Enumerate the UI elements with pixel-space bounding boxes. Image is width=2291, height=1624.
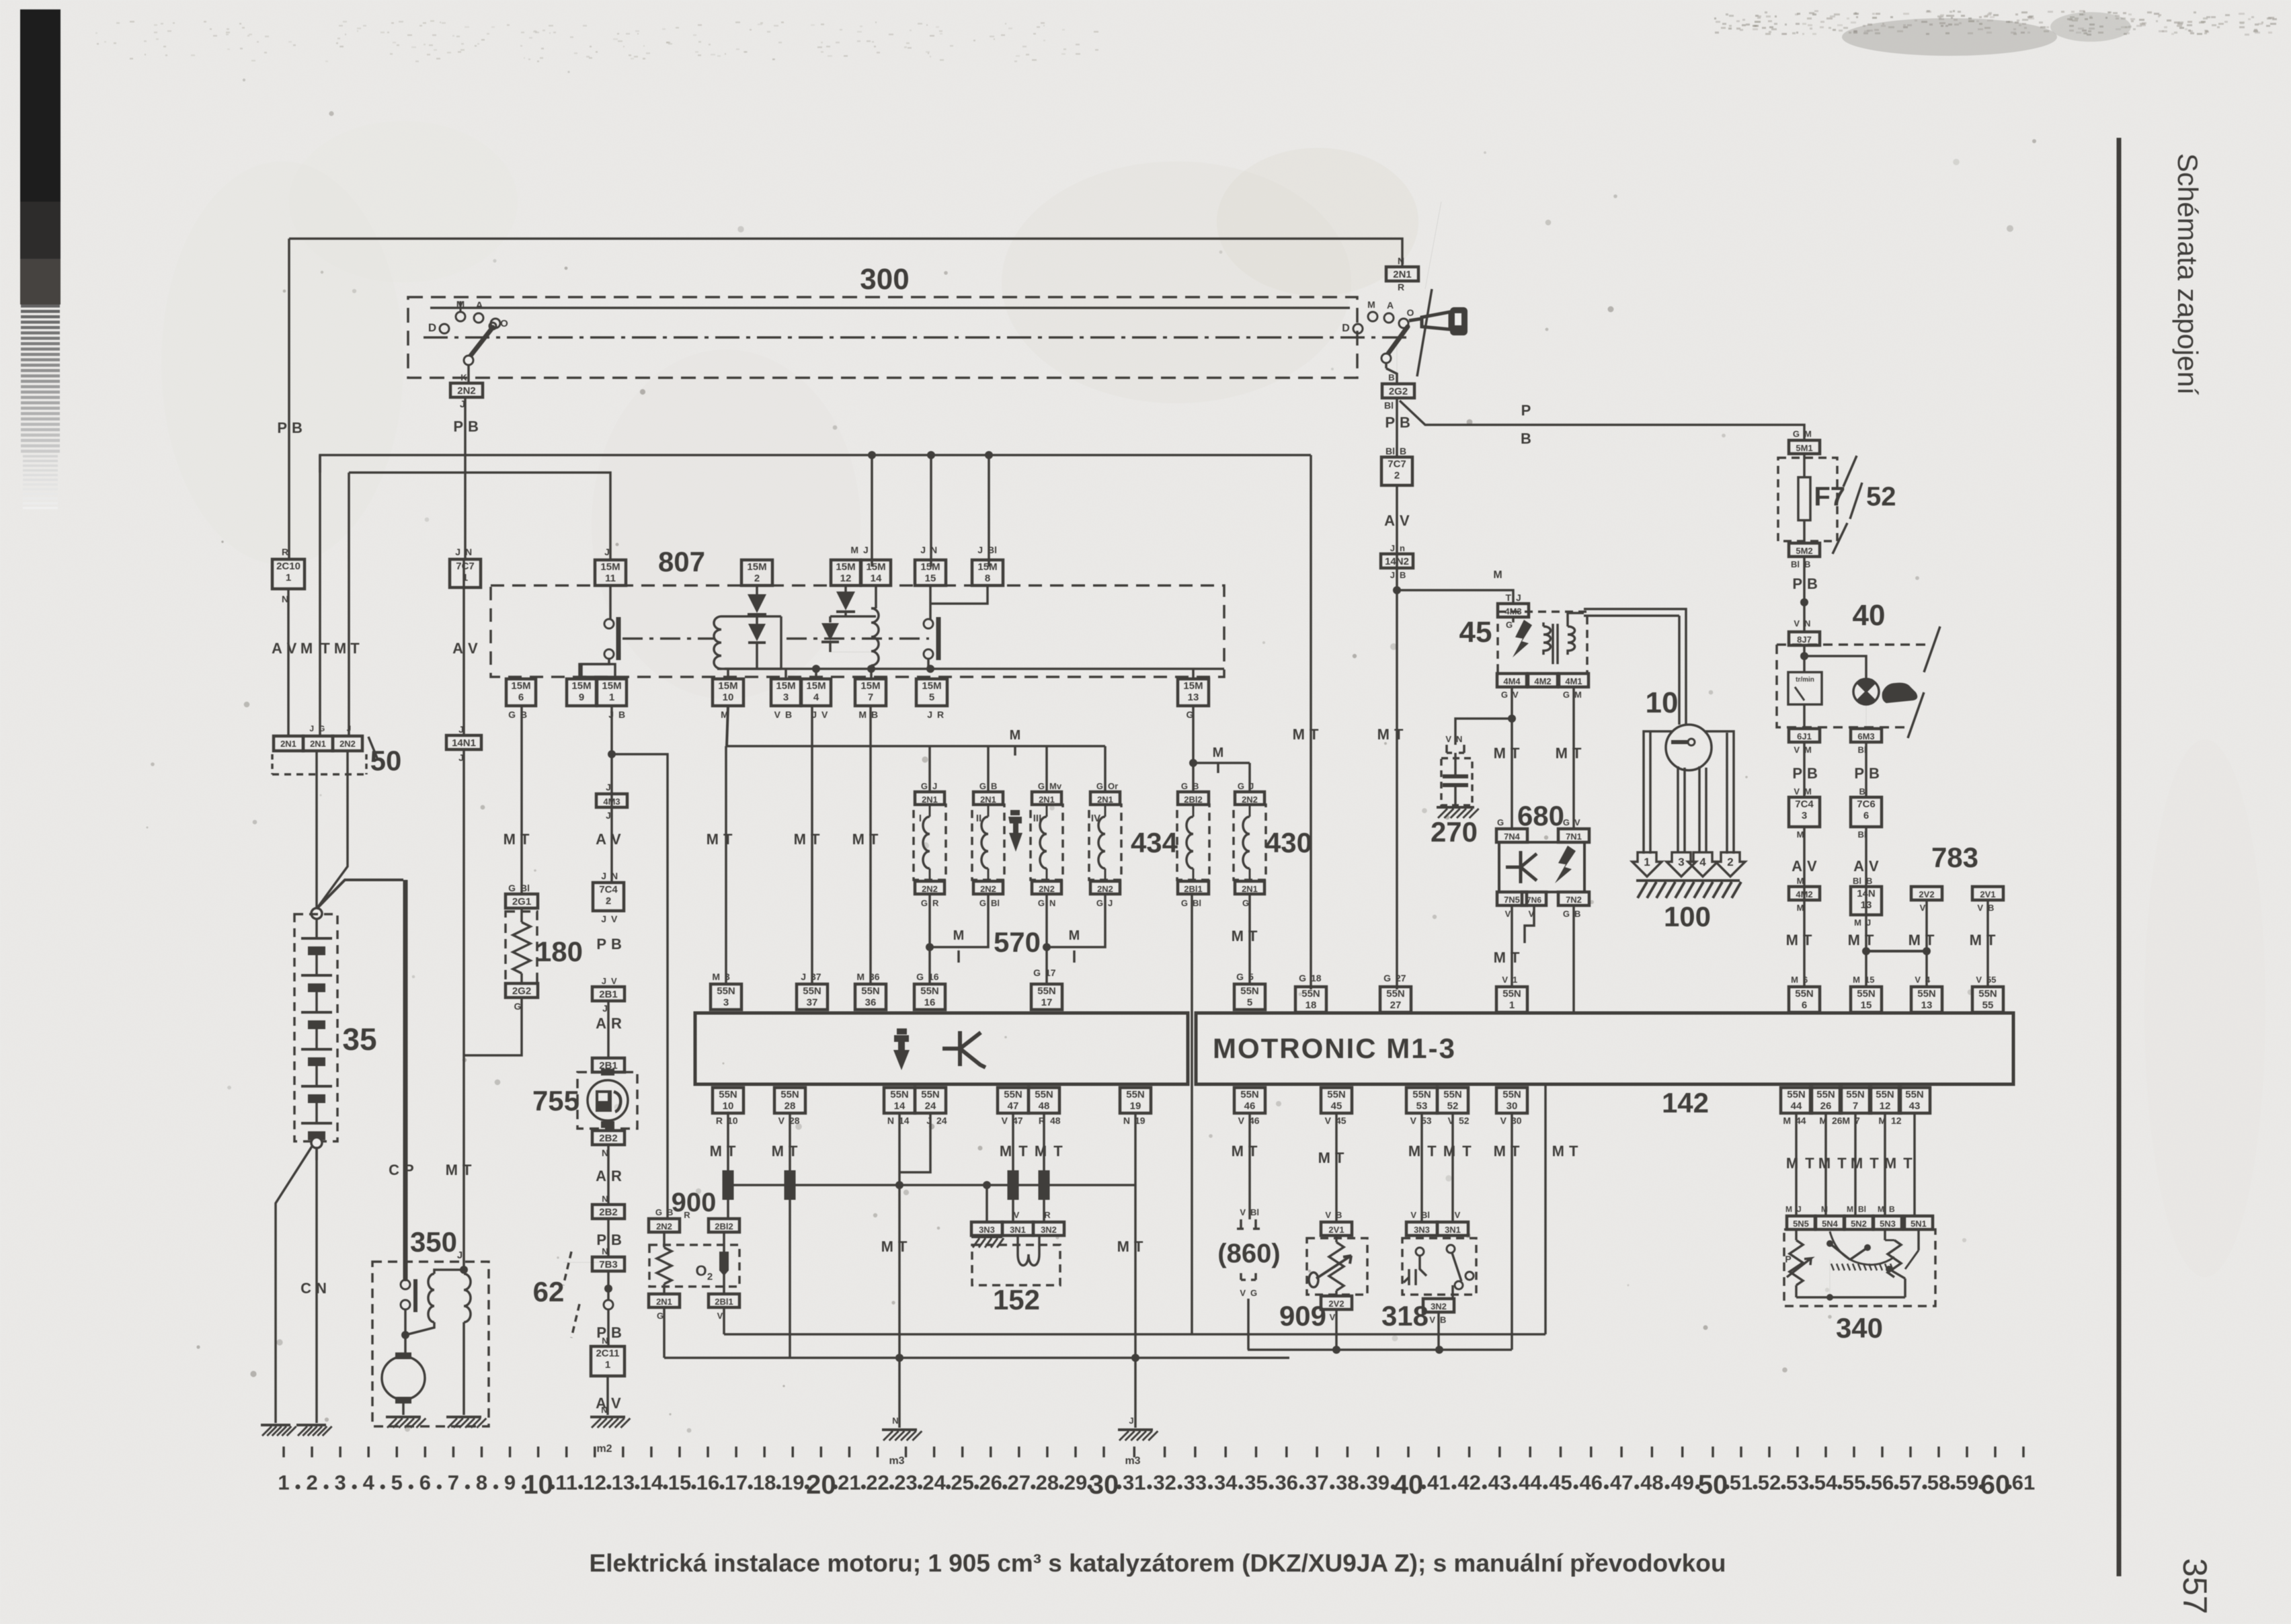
- svg-text:T: T: [350, 640, 360, 657]
- wire battery feed top H1: [289, 239, 1402, 267]
- svg-text:G: G: [1501, 690, 1508, 700]
- module 152 coil: [1018, 1235, 1039, 1266]
- sensor 430 dashed body: [1234, 805, 1266, 880]
- svg-text:G: G: [657, 1311, 664, 1321]
- svg-text:2N1: 2N1: [1393, 269, 1412, 280]
- injector II coil: [988, 805, 990, 817]
- svg-text:G: G: [1506, 620, 1513, 630]
- svg-text:V: V: [611, 976, 617, 986]
- svg-text:J: J: [601, 913, 606, 924]
- svg-text:5: 5: [1247, 997, 1252, 1008]
- svg-text:B: B: [1574, 909, 1580, 919]
- injector I riser: [928, 746, 931, 793]
- splice link line: [728, 1184, 1135, 1186]
- svg-text:M: M: [1318, 1149, 1330, 1166]
- starter cable CP thick: [403, 880, 408, 1281]
- svg-text:M: M: [1804, 429, 1812, 439]
- svg-text:N: N: [611, 870, 618, 881]
- svg-text:7C7: 7C7: [456, 561, 475, 572]
- svg-text:5: 5: [929, 692, 934, 703]
- ignition switch right lever: [1386, 327, 1408, 356]
- svg-text:2Bl2: 2Bl2: [1184, 795, 1202, 805]
- svg-text:6: 6: [419, 1471, 431, 1494]
- svg-text:36: 36: [865, 997, 877, 1008]
- connector 55N55: [1972, 987, 2003, 1012]
- right separator rule: [2117, 138, 2122, 1576]
- O2 connector 2Bl2: [709, 1219, 739, 1232]
- svg-text:55N: 55N: [1004, 1089, 1022, 1100]
- svg-text:B: B: [618, 709, 625, 720]
- svg-text:G: G: [1563, 817, 1570, 827]
- svg-text:M: M: [1377, 726, 1390, 743]
- svg-text:13: 13: [612, 1471, 635, 1494]
- wire col1338 down to ground m3: [898, 1113, 901, 1428]
- svg-text:G: G: [921, 781, 928, 791]
- ground capacitor 270: [1437, 806, 1474, 809]
- svg-text:34: 34: [1214, 1471, 1238, 1494]
- svg-text:7C6: 7C6: [1857, 799, 1876, 810]
- svg-text:1: 1: [286, 572, 291, 583]
- connector 55N14: [884, 1088, 915, 1113]
- svg-text:G: G: [1236, 971, 1244, 982]
- svg-text:Bl: Bl: [1385, 446, 1395, 456]
- connector 55N19: [1120, 1088, 1151, 1113]
- svg-text:N: N: [887, 1115, 894, 1126]
- O2 sensor element: [723, 1233, 725, 1252]
- wire 62 to 2C11: [607, 1309, 610, 1346]
- svg-text:M: M: [1232, 928, 1244, 944]
- svg-text:15M: 15M: [920, 561, 940, 573]
- fuse F7 element: [1803, 454, 1806, 477]
- connector 55N24: [915, 1088, 946, 1113]
- connector 55N48: [1029, 1088, 1059, 1113]
- svg-text:m3: m3: [1125, 1455, 1140, 1467]
- wire 4M1 down to 680: [1572, 687, 1575, 829]
- svg-text:434: 434: [1131, 827, 1178, 858]
- svg-text:T: T: [463, 1162, 472, 1178]
- svg-text:900: 900: [672, 1188, 717, 1217]
- wire 2G2 down to 7C7-2: [1396, 398, 1398, 457]
- svg-text:Bl: Bl: [1859, 786, 1868, 797]
- svg-text:15M: 15M: [922, 680, 941, 692]
- svg-text:15M: 15M: [511, 680, 530, 692]
- svg-text:46: 46: [1244, 1100, 1256, 1112]
- distributor leads: [1644, 731, 1672, 854]
- svg-text:37: 37: [807, 997, 818, 1008]
- svg-text:Bl: Bl: [1853, 876, 1861, 886]
- strip 50 lower dashed row: [272, 773, 366, 776]
- svg-text:55N: 55N: [1795, 988, 1814, 1000]
- svg-text:N: N: [1049, 898, 1055, 908]
- svg-text:55N: 55N: [1905, 1089, 1924, 1100]
- wire inj I to 55N16: [928, 947, 931, 984]
- svg-text:B: B: [611, 936, 622, 952]
- connector 55N27: [1380, 987, 1411, 1012]
- warning lamp symbol: [1853, 679, 1879, 704]
- wire 7N2 down to bus: [1572, 905, 1575, 1013]
- svg-text:4: 4: [1925, 975, 1931, 985]
- svg-text:100: 100: [1664, 901, 1711, 932]
- injector III coil: [1046, 805, 1048, 817]
- svg-text:52: 52: [1758, 1471, 1781, 1494]
- svg-text:5N2: 5N2: [1851, 1219, 1867, 1229]
- svg-text:4M4: 4M4: [1503, 676, 1521, 686]
- svg-text:T: T: [1572, 745, 1582, 762]
- svg-text:R: R: [282, 546, 288, 557]
- svg-text:(860): (860): [1217, 1239, 1280, 1268]
- svg-text:M: M: [1574, 690, 1582, 700]
- svg-text:T: T: [1925, 932, 1935, 948]
- svg-text:G: G: [921, 898, 928, 908]
- svg-text:909: 909: [1279, 1300, 1326, 1332]
- svg-text:18: 18: [1311, 973, 1322, 983]
- svg-text:26: 26: [979, 1471, 1002, 1494]
- svg-text:27: 27: [1390, 1000, 1402, 1011]
- svg-text:G: G: [979, 898, 986, 908]
- svg-text:15M: 15M: [602, 680, 621, 692]
- svg-text:V: V: [1240, 1288, 1246, 1298]
- svg-text:5N1: 5N1: [1911, 1219, 1927, 1229]
- svg-text:B: B: [1400, 570, 1406, 580]
- svg-text:43: 43: [1909, 1100, 1921, 1112]
- svg-text:B: B: [1400, 414, 1410, 431]
- svg-text:G: G: [319, 724, 325, 733]
- svg-text:6: 6: [1863, 810, 1869, 821]
- connector 2V2b: [1911, 887, 1942, 900]
- svg-text:A: A: [596, 831, 606, 848]
- svg-text:4: 4: [813, 692, 819, 703]
- switch 318 contacts: [1416, 1248, 1424, 1256]
- svg-text:59: 59: [1956, 1471, 1978, 1494]
- svg-text:55N: 55N: [1816, 1089, 1835, 1100]
- wire 55N18 drop: [1310, 455, 1312, 989]
- svg-text:N: N: [1804, 618, 1810, 628]
- svg-text:55N: 55N: [803, 985, 821, 997]
- svg-text:R: R: [937, 709, 944, 720]
- sensor 434 coil: [1193, 805, 1195, 817]
- svg-text:54: 54: [1814, 1471, 1838, 1494]
- relay coil R2 top link: [830, 615, 876, 618]
- svg-text:2N1: 2N1: [922, 795, 938, 805]
- connector 15M5: [916, 679, 947, 706]
- meter 340 wiper arc: [1830, 1231, 1894, 1265]
- pot 909 element: [1335, 1235, 1338, 1242]
- svg-text:8: 8: [985, 573, 990, 584]
- HT lead coil to distributor: [1584, 609, 1686, 725]
- svg-text:53: 53: [1786, 1471, 1809, 1494]
- svg-text:M: M: [1117, 1238, 1129, 1255]
- svg-text:35: 35: [342, 1022, 376, 1057]
- resistor 180 element: [520, 908, 523, 922]
- svg-text:Bl: Bl: [1858, 1205, 1866, 1214]
- svg-text:55N: 55N: [1037, 985, 1056, 997]
- svg-text:B: B: [1440, 1315, 1446, 1325]
- svg-text:T: T: [1462, 1143, 1472, 1160]
- svg-text:55N: 55N: [1301, 988, 1320, 1000]
- junction 270 branch: [1508, 715, 1516, 723]
- svg-text:MOTRONIC M1-3: MOTRONIC M1-3: [1213, 1032, 1456, 1064]
- wire to 7B3: [607, 1219, 610, 1257]
- battery bottom node: [311, 1137, 322, 1148]
- ground starter solenoid: [446, 1416, 481, 1418]
- ECU spark plug glyph: [893, 1035, 910, 1070]
- wire x476 drop from H2: [319, 455, 321, 736]
- svg-text:47: 47: [1008, 1100, 1019, 1112]
- connector 5N4: [1816, 1216, 1844, 1229]
- svg-text:430: 430: [1265, 827, 1312, 858]
- svg-text:J: J: [455, 546, 460, 557]
- svg-text:45: 45: [1549, 1471, 1572, 1494]
- svg-text:B: B: [1869, 765, 1880, 782]
- wire 7N6 jog: [1525, 905, 1534, 943]
- svg-text:15M: 15M: [718, 680, 737, 692]
- svg-text:570: 570: [994, 926, 1041, 958]
- svg-text:7N5: 7N5: [1504, 895, 1520, 905]
- svg-text:58: 58: [1927, 1471, 1950, 1494]
- wire 434 down through bus gap: [1191, 894, 1193, 1334]
- svg-text:17: 17: [725, 1471, 748, 1494]
- connector 15M8: [972, 560, 1003, 585]
- connector 7N2: [1558, 892, 1589, 905]
- svg-text:N: N: [316, 1280, 327, 1297]
- svg-text:V: V: [1429, 1315, 1435, 1325]
- svg-text:8: 8: [476, 1471, 487, 1494]
- connector 15M15: [915, 560, 946, 585]
- svg-text:3N1: 3N1: [1010, 1225, 1026, 1235]
- meter 340 left pot: [1795, 1229, 1798, 1240]
- wire 5M2 to 8J7: [1803, 557, 1806, 632]
- svg-text:B: B: [871, 709, 878, 720]
- svg-text:55N: 55N: [1787, 1089, 1806, 1100]
- connector 7N5: [1497, 892, 1527, 905]
- connector 55N47: [998, 1088, 1029, 1113]
- svg-text:Bl: Bl: [520, 883, 530, 893]
- svg-text:55N: 55N: [1443, 1089, 1462, 1100]
- svg-text:15M: 15M: [600, 561, 620, 573]
- connector 2V1: [1321, 1222, 1352, 1235]
- svg-text:47: 47: [1610, 1471, 1633, 1494]
- svg-text:18: 18: [1305, 1000, 1317, 1011]
- svg-text:J: J: [1390, 543, 1395, 553]
- svg-text:10: 10: [1646, 686, 1679, 719]
- svg-text:15M: 15M: [1183, 680, 1203, 692]
- svg-text:6M3: 6M3: [1857, 731, 1874, 741]
- relay coil R1 top node: [721, 615, 781, 618]
- wire node to battery diagonal to CP: [317, 880, 403, 909]
- svg-text:T: T: [789, 1143, 798, 1160]
- pot 909 dashed box: [1307, 1238, 1367, 1295]
- connector 55N5: [1234, 984, 1265, 1010]
- svg-text:4: 4: [363, 1471, 375, 1494]
- svg-text:G: G: [1038, 898, 1045, 908]
- module 680 box: [1499, 842, 1584, 892]
- svg-text:F7: F7: [1814, 482, 1845, 512]
- svg-text:11: 11: [555, 1471, 577, 1494]
- wire strip to battery: [315, 751, 318, 909]
- svg-text:14: 14: [640, 1471, 664, 1494]
- svg-text:G: G: [1033, 967, 1041, 978]
- svg-text:48: 48: [1050, 1115, 1061, 1126]
- svg-text:2: 2: [306, 1471, 317, 1494]
- svg-text:M: M: [1783, 1115, 1791, 1126]
- svg-text:15M: 15M: [747, 561, 766, 573]
- svg-text:B: B: [1866, 876, 1872, 886]
- svg-text:5N3: 5N3: [1880, 1219, 1896, 1229]
- wire strip second to battery diagonal: [317, 751, 348, 909]
- svg-text:30: 30: [1089, 1470, 1119, 1500]
- spark plug icon inside 807 region: [1008, 817, 1022, 852]
- svg-text:4M1: 4M1: [1565, 676, 1582, 686]
- connector 2V2: [1321, 1296, 1352, 1309]
- svg-text:2N2: 2N2: [1039, 884, 1055, 894]
- svg-text:1: 1: [1513, 975, 1517, 985]
- connector 5N2: [1845, 1216, 1873, 1229]
- svg-text:7B3: 7B3: [599, 1259, 618, 1270]
- svg-text:V: V: [1240, 1207, 1246, 1217]
- svg-text:V: V: [1455, 1210, 1461, 1220]
- module 152 connector 3N2: [1033, 1222, 1064, 1235]
- relay coil R2: [871, 608, 879, 665]
- svg-text:N: N: [1398, 255, 1404, 266]
- O2 heater resistor: [663, 1233, 666, 1248]
- svg-text:N: N: [892, 1416, 898, 1426]
- ignition switch dash-dot line: [424, 336, 1412, 339]
- junction dot 910: [608, 750, 616, 758]
- svg-text:5N5: 5N5: [1793, 1219, 1809, 1229]
- svg-text:300: 300: [860, 263, 909, 296]
- svg-text:N: N: [602, 1194, 608, 1204]
- module 152 ground hatch: [971, 1235, 1002, 1238]
- svg-text:13: 13: [1861, 899, 1872, 911]
- svg-text:55: 55: [1843, 1471, 1865, 1494]
- svg-text:2N2: 2N2: [457, 385, 476, 397]
- svg-text:14: 14: [894, 1100, 906, 1112]
- svg-text:V: V: [1410, 1115, 1417, 1126]
- svg-text:C: C: [389, 1162, 399, 1178]
- svg-text:5N4: 5N4: [1822, 1219, 1839, 1229]
- svg-text:2G2: 2G2: [512, 985, 531, 997]
- svg-text:m2: m2: [596, 1443, 612, 1455]
- wire 15M1 col down to fuel chain: [610, 706, 613, 883]
- svg-text:J: J: [457, 1250, 463, 1261]
- svg-text:13: 13: [1188, 692, 1199, 703]
- svg-text:N: N: [601, 1405, 607, 1415]
- car icon blob: [1882, 683, 1918, 703]
- connector 55N7: [1840, 1088, 1871, 1113]
- svg-text:61: 61: [2012, 1471, 2035, 1494]
- svg-text:P: P: [404, 1162, 414, 1178]
- svg-text:7C4: 7C4: [1795, 799, 1814, 810]
- svg-text:G: G: [1497, 817, 1504, 827]
- svg-text:2B2: 2B2: [599, 1133, 618, 1144]
- svg-text:1: 1: [1509, 1000, 1515, 1011]
- svg-text:B: B: [1807, 765, 1818, 782]
- svg-text:V: V: [1502, 975, 1508, 985]
- svg-text:7N1: 7N1: [1566, 831, 1582, 842]
- svg-text:21: 21: [838, 1471, 860, 1494]
- svg-text:2Bl1: 2Bl1: [1184, 884, 1202, 894]
- svg-text:V: V: [1505, 909, 1511, 919]
- injector I coil: [929, 805, 931, 817]
- svg-text:60: 60: [1980, 1470, 2011, 1500]
- svg-text:P: P: [1785, 1254, 1791, 1264]
- wire riser 15M15: [930, 455, 932, 567]
- connector row 4M4 4M2 4M1: [1497, 674, 1527, 687]
- connector 15M10: [713, 679, 743, 706]
- svg-text:G: G: [916, 971, 924, 982]
- wire 2V1b down: [1986, 900, 1989, 987]
- svg-text:J: J: [606, 810, 611, 821]
- relay contact K1: [604, 619, 614, 628]
- ignition coil 45 dashed box: [1498, 612, 1587, 674]
- svg-text:A: A: [596, 1168, 606, 1184]
- top-right dotted scanner noise band: [2071, 11, 2075, 13]
- relay coil R2 bottom wire: [870, 665, 873, 679]
- relay diode D2: [748, 624, 766, 641]
- wire 15M10 col to M bus and 55N3: [727, 706, 728, 746]
- svg-text:B: B: [1521, 430, 1531, 447]
- svg-text:Bl: Bl: [1384, 400, 1394, 411]
- svg-text:N: N: [602, 1246, 608, 1256]
- wires 340 columns: [1795, 1113, 1798, 1216]
- svg-text:V: V: [1002, 1115, 1008, 1126]
- capacitor 270 dashed box: [1441, 758, 1472, 805]
- svg-text:J: J: [863, 544, 869, 555]
- svg-text:42: 42: [1457, 1471, 1480, 1494]
- sensor 434 connector 2Bl2: [1178, 792, 1209, 805]
- svg-text:G: G: [514, 1001, 522, 1012]
- svg-text:J: J: [602, 976, 606, 986]
- svg-text:J: J: [1249, 781, 1254, 791]
- svg-text:T: T: [1511, 745, 1520, 762]
- svg-text:3N2: 3N2: [1431, 1301, 1447, 1311]
- svg-text:G: G: [1238, 781, 1244, 791]
- svg-text:33: 33: [1184, 1471, 1207, 1494]
- link O2-left lower: [664, 1356, 1289, 1359]
- wire riser 15M8: [988, 455, 990, 567]
- wire 860 to link: [1247, 1299, 1250, 1350]
- injector II riser: [987, 746, 990, 793]
- wire riser 15M14: [871, 455, 873, 567]
- svg-text:D: D: [428, 321, 436, 334]
- injector II dashed body: [972, 805, 1004, 880]
- svg-text:T: T: [1018, 1143, 1028, 1160]
- wire 55N10 col through bus gap none: [727, 1109, 729, 1113]
- wire 6M3 down: [1865, 704, 1867, 729]
- svg-text:3N3: 3N3: [979, 1225, 995, 1235]
- battery cells: [315, 919, 318, 938]
- svg-text:T: T: [1870, 1155, 1879, 1172]
- connector 5N1: [1904, 1216, 1933, 1229]
- svg-text:7C4: 7C4: [599, 884, 618, 895]
- svg-text:J: J: [347, 724, 352, 733]
- dirt specks: [687, 1428, 692, 1433]
- connector 55N16: [914, 984, 945, 1010]
- svg-text:152: 152: [993, 1284, 1040, 1315]
- svg-text:7C7: 7C7: [1388, 458, 1406, 470]
- junction feed to coil 45: [1393, 586, 1401, 594]
- svg-text:M: M: [1069, 928, 1080, 943]
- svg-text:G: G: [508, 883, 516, 893]
- wire solenoid winding2 to ground: [463, 1322, 465, 1415]
- svg-text:55N: 55N: [1240, 1089, 1259, 1100]
- svg-text:7N6: 7N6: [1527, 895, 1541, 905]
- svg-text:R: R: [611, 1168, 622, 1184]
- svg-text:3N3: 3N3: [1414, 1225, 1430, 1235]
- svg-text:A: A: [1792, 858, 1802, 875]
- svg-text:C: C: [300, 1280, 311, 1297]
- svg-text:15: 15: [925, 573, 936, 584]
